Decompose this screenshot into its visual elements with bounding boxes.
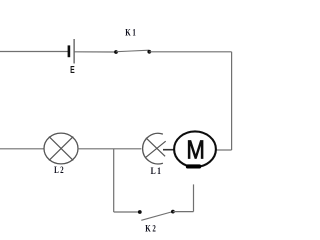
node junction vertical wire down to K2 branch [113, 149, 115, 212]
lamp L1 cross [146, 138, 166, 158]
switch K1 left contact dot [114, 50, 118, 54]
svg-text:L 1: L 1 [151, 166, 161, 177]
wire battery to switch K1 [74, 51, 116, 53]
switch K1 blade [116, 50, 149, 52]
wire right vertical to motor [217, 149, 232, 151]
motor M bottom terminal bar [186, 164, 201, 168]
wire right vertical [231, 52, 233, 150]
wire middle-left to lamp L2 [0, 148, 44, 150]
lamp L1 arc [143, 133, 163, 164]
wire lamp L1 to motor M [163, 149, 174, 151]
wire K2 branch bottom horizontal left [114, 211, 140, 213]
battery E short thick plate [68, 45, 71, 57]
svg-text:L 2: L 2 [54, 165, 64, 176]
wire lamp L2 to lamp L1 [78, 148, 141, 150]
svg-text:E: E [70, 65, 75, 76]
lamp L2 circle [44, 133, 78, 164]
svg-text:K 2: K 2 [145, 223, 156, 234]
lamp L2 cross [49, 137, 73, 161]
motor M circle [174, 131, 216, 167]
switch K2 blade (open) [141, 211, 173, 220]
svg-text:M: M [186, 137, 205, 165]
battery E long thin plate [73, 39, 75, 64]
switch K2 left contact dot [138, 210, 142, 214]
wire K2 to right riser [173, 211, 194, 213]
switch K2 right contact dot [171, 210, 175, 214]
wire K1 to top-right corner [149, 51, 231, 53]
svg-text:K 1: K 1 [125, 28, 136, 39]
switch K1 right contact dot [147, 50, 151, 54]
wire right riser up toward motor [193, 184, 195, 211]
wire top-left to battery [0, 51, 68, 53]
